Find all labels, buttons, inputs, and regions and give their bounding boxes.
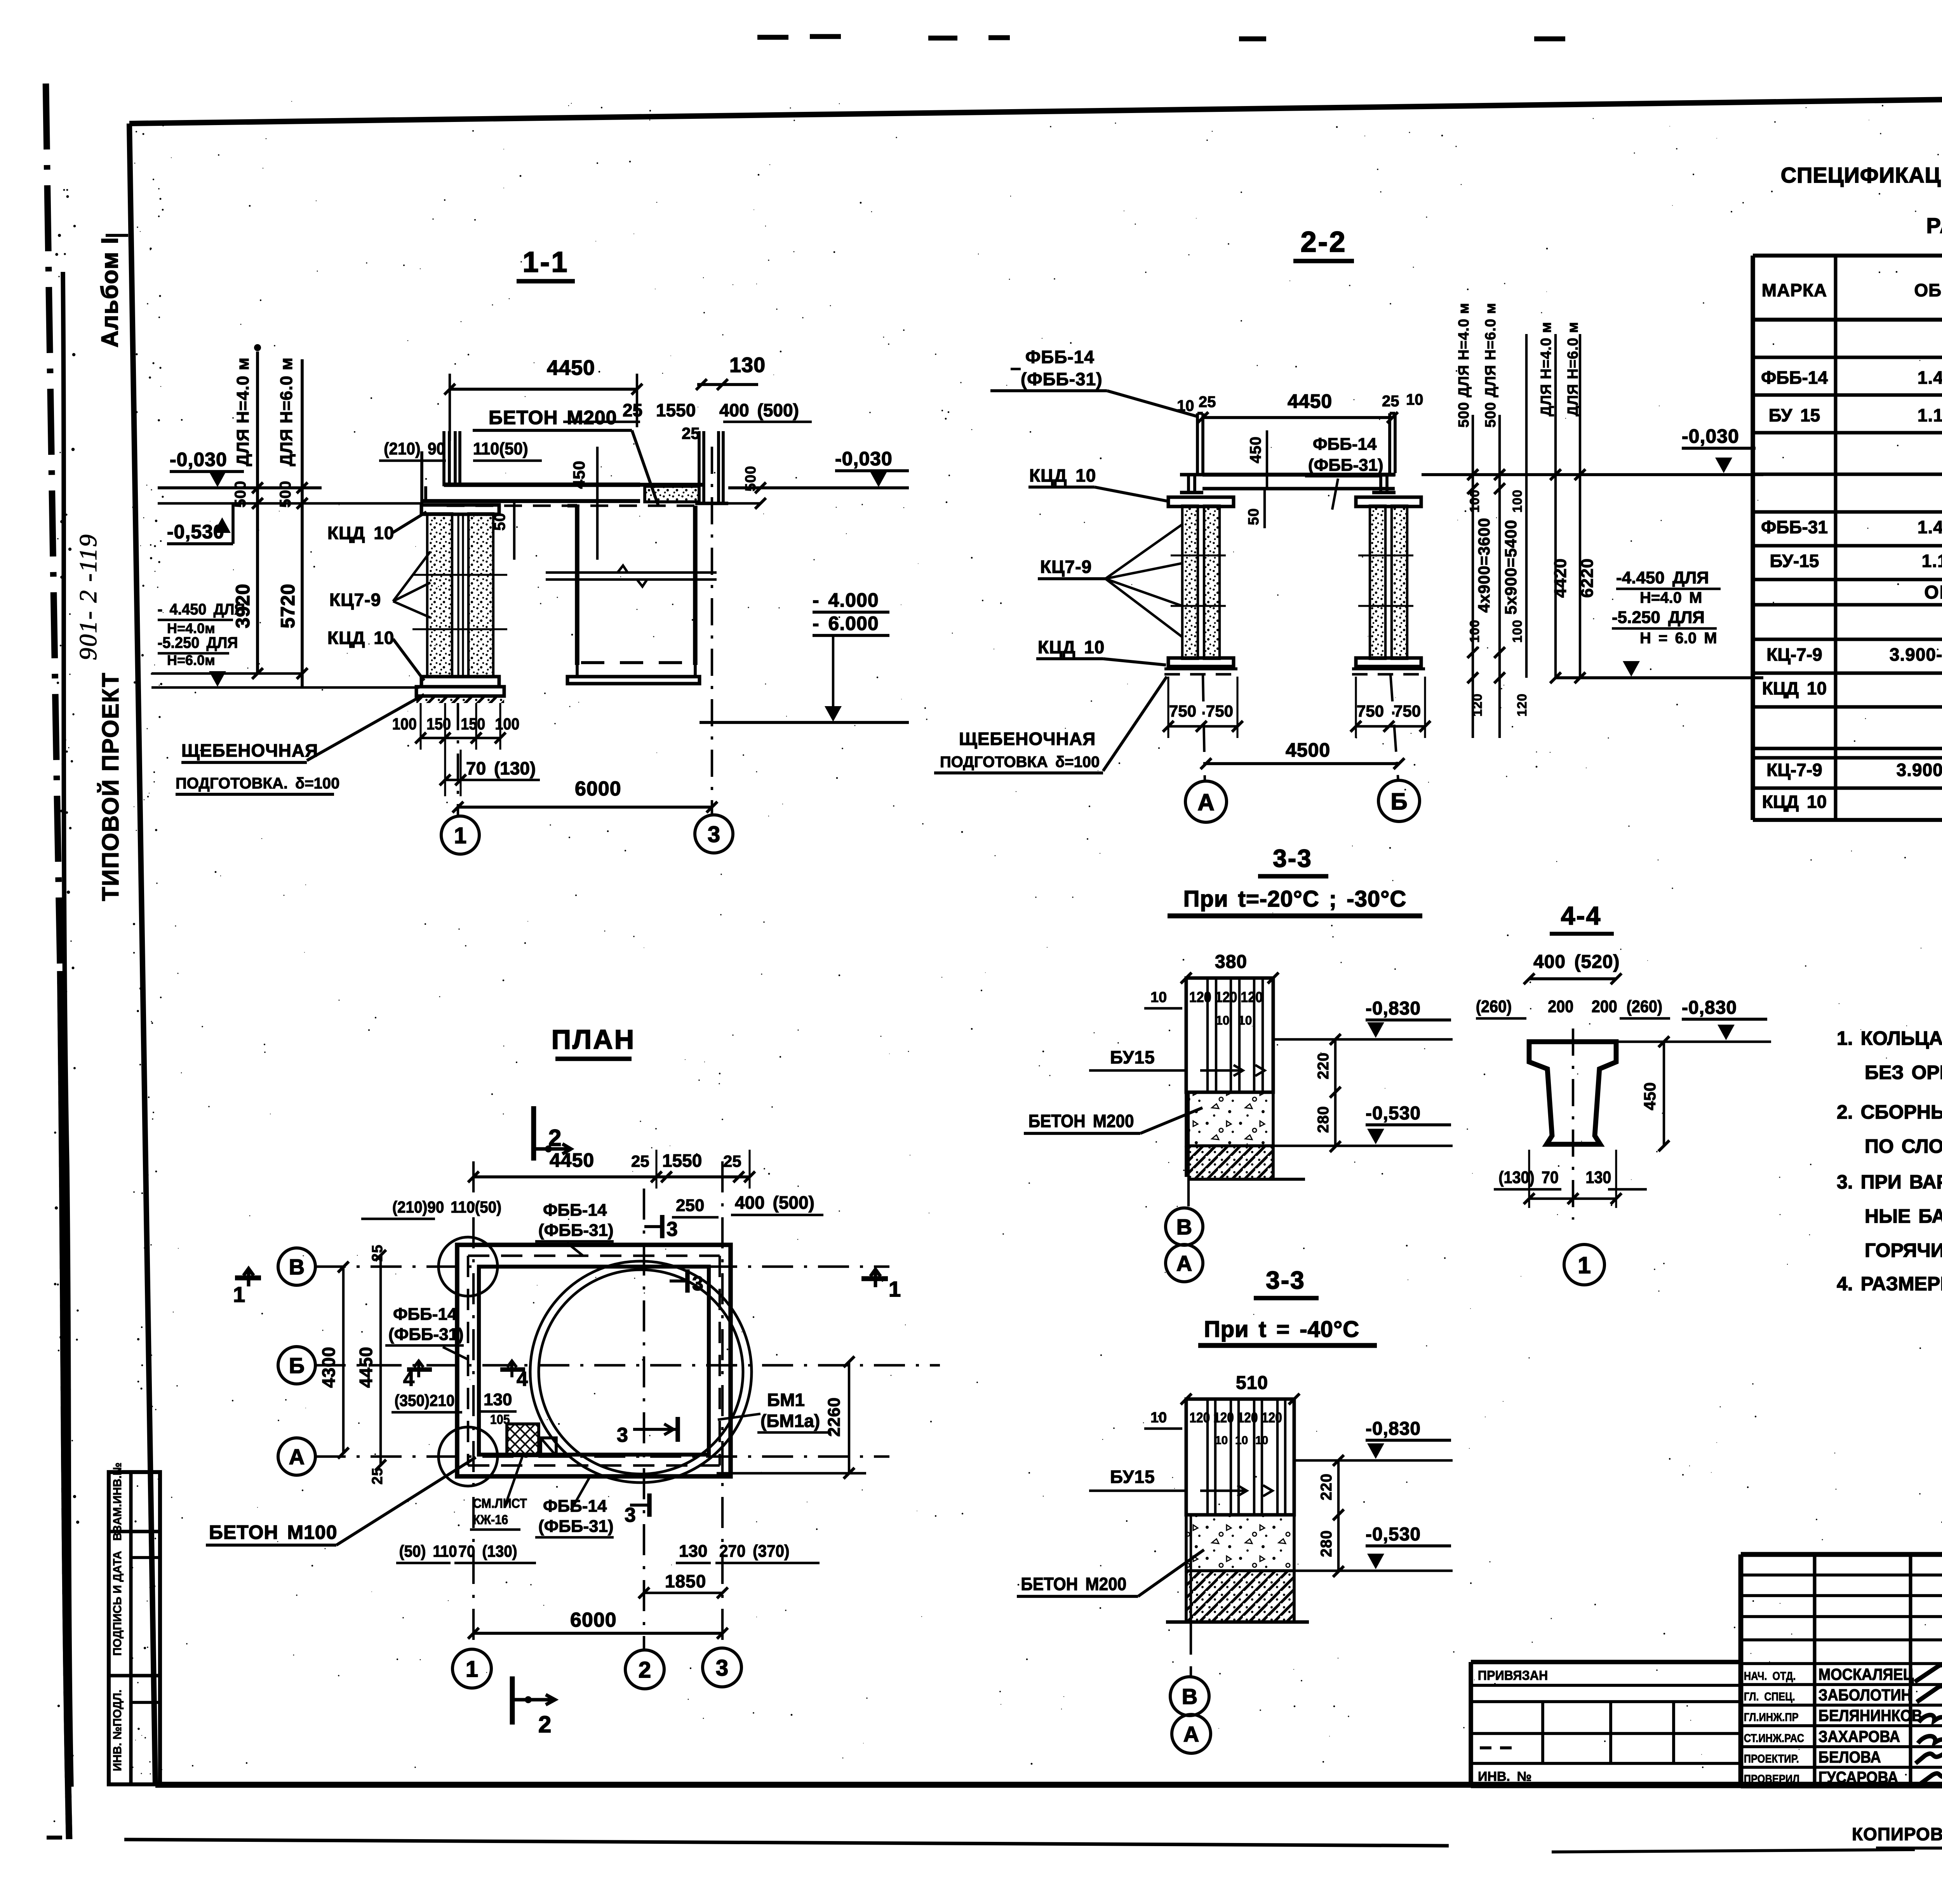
svg-text:КЖ-16: КЖ-16 — [473, 1512, 508, 1527]
svg-text:2. СБОРНЫЕ ЖЕЛЕЗОБЕТОННЫЕ ЭЛ: 2. СБОРНЫЕ ЖЕЛЕЗОБЕТОННЫЕ ЭЛЕМЕНТЫ УКЛАД… — [1837, 1101, 1942, 1123]
svg-text:ЩЕБЕНОЧНАЯ: ЩЕБЕНОЧНАЯ — [959, 729, 1096, 749]
svg-text:6220: 6220 — [1578, 558, 1597, 598]
svg-text:ФББ-14: ФББ-14 — [1025, 347, 1095, 367]
svg-text:2260: 2260 — [825, 1397, 844, 1437]
svg-text:120: 120 — [1262, 1410, 1282, 1425]
svg-text:БЕТОН М200: БЕТОН М200 — [1028, 1111, 1134, 1131]
svg-text:4х900=3600: 4х900=3600 — [1475, 518, 1493, 613]
svg-text:(210) 90: (210) 90 — [384, 439, 445, 458]
svg-text:А: А — [1176, 1251, 1192, 1276]
svg-text:ПЛАН: ПЛАН — [552, 1024, 636, 1055]
svg-text:130: 130 — [729, 353, 766, 377]
svg-text:Н=6.0м: Н=6.0м — [167, 652, 215, 668]
svg-text:220: 220 — [1318, 1473, 1335, 1500]
svg-text:ПОДГОТОВКА. δ=100: ПОДГОТОВКА. δ=100 — [176, 775, 339, 792]
svg-text:ГЛ.ИНЖ.ПР: ГЛ.ИНЖ.ПР — [1744, 1711, 1799, 1723]
svg-text:4420: 4420 — [1551, 558, 1570, 598]
svg-text:6000: 6000 — [575, 778, 621, 800]
svg-text:150: 150 — [426, 715, 451, 733]
svg-text:А: А — [1183, 1722, 1199, 1746]
svg-text:120: 120 — [1515, 693, 1530, 717]
svg-text:ФББ-14: ФББ-14 — [543, 1201, 607, 1220]
svg-text:120: 120 — [1241, 989, 1263, 1005]
svg-text:МАРКА: МАРКА — [1762, 280, 1827, 300]
svg-text:ФББ-14: ФББ-14 — [393, 1305, 457, 1324]
svg-text:3. ПРИ ВАРИАНТЕ В МОКРЫХ Г: 3. ПРИ ВАРИАНТЕ В МОКРЫХ ГРУНТАХ, ОПОРЫ … — [1837, 1171, 1942, 1193]
svg-text:БЕЗ ОРГАНИЧЕСКИХ ПРИМЕСЕЙ: БЕЗ ОРГАНИЧЕСКИХ ПРИМЕСЕЙ — [1865, 1061, 1942, 1083]
svg-text:400 (500): 400 (500) — [719, 400, 799, 420]
svg-text:200: 200 — [1548, 997, 1573, 1016]
svg-text:120: 120 — [1213, 1410, 1234, 1425]
svg-text:3-3: 3-3 — [1273, 844, 1312, 872]
svg-text:120: 120 — [1237, 1410, 1258, 1425]
svg-text:10: 10 — [1216, 1013, 1230, 1027]
svg-text:ПРИВЯЗАН: ПРИВЯЗАН — [1478, 1668, 1548, 1683]
svg-text:- 6.000: - 6.000 — [813, 613, 879, 634]
svg-text:4450: 4450 — [1288, 390, 1332, 412]
svg-text:КЦ7-9: КЦ7-9 — [1040, 557, 1092, 577]
svg-text:(50) 110: (50) 110 — [399, 1542, 457, 1560]
svg-text:450: 450 — [1247, 436, 1264, 463]
svg-text:100: 100 — [495, 715, 519, 733]
svg-text:-0,030: -0,030 — [170, 449, 227, 470]
svg-text:ФББ-14: ФББ-14 — [1313, 435, 1377, 454]
svg-text:-5.250 ДЛЯ: -5.250 ДЛЯ — [1612, 608, 1705, 627]
svg-text:5х900=5400: 5х900=5400 — [1502, 520, 1520, 615]
svg-text:КЦД 10: КЦД 10 — [327, 628, 394, 648]
svg-text:КОПИРОВАЛ:: КОПИРОВАЛ: — [1852, 1824, 1942, 1844]
svg-text:120: 120 — [1189, 1410, 1210, 1425]
svg-text:ВЗАМ.ИНВ.№: ВЗАМ.ИНВ.№ — [111, 1462, 124, 1541]
svg-text:380: 380 — [1215, 952, 1247, 972]
svg-text:4-4: 4-4 — [1561, 901, 1601, 930]
svg-text:МОСКАЛЯЕЦ: МОСКАЛЯЕЦ — [1818, 1666, 1914, 1683]
svg-text:270 (370): 270 (370) — [719, 1541, 790, 1560]
svg-text:1.415-1 Вып. 1: 1.415-1 Вып. 1 — [1918, 367, 1942, 388]
svg-text:БУ15: БУ15 — [1110, 1047, 1155, 1067]
svg-text:ПРОВЕРИЛ: ПРОВЕРИЛ — [1744, 1772, 1799, 1785]
svg-text:-0,830: -0,830 — [1366, 998, 1421, 1019]
svg-text:200: 200 — [1592, 997, 1617, 1016]
svg-text:4300: 4300 — [318, 1347, 339, 1388]
svg-text:ДЛЯ Н=4.0 м: ДЛЯ Н=4.0 м — [233, 357, 252, 466]
svg-text:ФББ-14: ФББ-14 — [543, 1497, 607, 1516]
svg-text:450: 450 — [1641, 1082, 1659, 1110]
svg-text:25: 25 — [1199, 393, 1216, 411]
svg-text:1: 1 — [889, 1277, 901, 1301]
svg-text:1: 1 — [466, 1657, 478, 1682]
svg-text:ИНВ. №: ИНВ. № — [1478, 1769, 1531, 1784]
svg-text:КЦД 10: КЦД 10 — [327, 523, 394, 543]
svg-text:2: 2 — [538, 1711, 551, 1737]
svg-text:750: 750 — [1357, 702, 1384, 720]
svg-text:3: 3 — [617, 1424, 628, 1446]
svg-text:ПОДГОТОВКА δ=100: ПОДГОТОВКА δ=100 — [940, 754, 1100, 771]
svg-text:КЦД 10: КЦД 10 — [1762, 678, 1827, 698]
svg-text:1550: 1550 — [662, 1150, 702, 1171]
svg-text:1-1: 1-1 — [523, 246, 569, 278]
svg-text:Н = 6.0 М: Н = 6.0 М — [1640, 630, 1717, 647]
svg-text:Н=4.0 М: Н=4.0 М — [1640, 589, 1702, 606]
svg-text:БЕТОН М200: БЕТОН М200 — [1021, 1574, 1126, 1594]
svg-text:100: 100 — [392, 715, 417, 733]
svg-text:-0,530: -0,530 — [1366, 1524, 1421, 1545]
svg-text:1: 1 — [233, 1282, 245, 1307]
svg-text:400 (500): 400 (500) — [735, 1192, 814, 1213]
svg-text:10: 10 — [1406, 391, 1423, 408]
svg-text:-4.450 ДЛЯ: -4.450 ДЛЯ — [1616, 568, 1709, 587]
svg-text:В: В — [1182, 1684, 1197, 1709]
svg-text:-0,530: -0,530 — [1366, 1103, 1421, 1124]
svg-text:4450: 4450 — [550, 1149, 594, 1171]
svg-text:4: 4 — [403, 1368, 414, 1391]
svg-text:3: 3 — [625, 1504, 636, 1526]
svg-text:ОПОРЫ ПОД ФУНДАМЕНТНЫЕ Б: ОПОРЫ ПОД ФУНДАМЕНТНЫЕ БАЛКИ — [1924, 582, 1942, 603]
svg-text:150: 150 — [461, 715, 485, 733]
svg-text:3: 3 — [666, 1218, 678, 1241]
svg-text:В: В — [1176, 1215, 1192, 1239]
svg-text:1: 1 — [1578, 1252, 1590, 1278]
svg-text:ЗАБОЛОТИН: ЗАБОЛОТИН — [1818, 1686, 1912, 1704]
svg-text:ДЛЯ Н=6.0 м: ДЛЯ Н=6.0 м — [1565, 322, 1581, 416]
svg-text:-0,830: -0,830 — [1682, 997, 1737, 1018]
svg-text:А: А — [289, 1445, 305, 1469]
svg-text:При t = -40°C: При t = -40°C — [1204, 1317, 1359, 1342]
svg-text:ГУСАРОВА: ГУСАРОВА — [1818, 1768, 1898, 1786]
svg-text:3: 3 — [692, 1272, 703, 1295]
svg-text:4500: 4500 — [1286, 739, 1330, 761]
svg-text:4: 4 — [517, 1368, 528, 1391]
svg-text:Б: Б — [289, 1353, 305, 1378]
svg-text:КЦ-7-9: КЦ-7-9 — [1766, 760, 1822, 780]
svg-text:50: 50 — [1246, 508, 1262, 525]
svg-text:ПРОЕКТИР.: ПРОЕКТИР. — [1744, 1752, 1799, 1765]
svg-text:250: 250 — [676, 1196, 704, 1215]
svg-text:(БМ1а): (БМ1а) — [760, 1411, 820, 1431]
svg-text:500 ДЛЯ Н=6.0 м: 500 ДЛЯ Н=6.0 м — [1483, 303, 1499, 428]
svg-text:400 (520): 400 (520) — [1533, 952, 1620, 972]
svg-text:(210)90: (210)90 — [392, 1197, 444, 1216]
svg-text:БЕЛЯНИНКОВ: БЕЛЯНИНКОВ — [1818, 1707, 1922, 1725]
svg-text:3-3: 3-3 — [1266, 1266, 1305, 1294]
svg-text:100: 100 — [1510, 489, 1525, 513]
svg-text:25: 25 — [631, 1152, 649, 1170]
svg-text:(260): (260) — [1476, 997, 1512, 1016]
svg-text:КЦД 10: КЦД 10 — [1029, 465, 1096, 486]
svg-text:ДЛЯ Н=4.0 м: ДЛЯ Н=4.0 м — [1538, 322, 1554, 416]
svg-text:750: 750 — [1169, 702, 1196, 720]
svg-text:25: 25 — [723, 1152, 741, 1170]
svg-text:70 (130): 70 (130) — [458, 1542, 517, 1560]
svg-text:ЩЕБЕНОЧНАЯ: ЩЕБЕНОЧНАЯ — [181, 740, 318, 761]
svg-text:130: 130 — [1585, 1168, 1611, 1187]
svg-text:РАСПОЛОЖЕННЫМ НА ЛИСТЕ: РАСПОЛОЖЕННЫМ НА ЛИСТЕ — [1926, 213, 1942, 238]
svg-text:Альбом I: Альбом I — [97, 237, 123, 348]
svg-text:ЗАХАРОВА: ЗАХАРОВА — [1818, 1728, 1900, 1746]
svg-text:3.900-3 Вып.7 ч. 1,2.: 3.900-3 Вып.7 ч. 1,2. — [1890, 644, 1942, 665]
svg-text:4. РАЗМЕРЫ И МАРКИ В СКОБК: 4. РАЗМЕРЫ И МАРКИ В СКОБКАХ ДЛЯ ТЕМПЕРА… — [1837, 1273, 1942, 1295]
svg-text:901- 2 -119: 901- 2 -119 — [74, 533, 102, 660]
svg-text:10: 10 — [1235, 1434, 1248, 1447]
svg-text:10: 10 — [1255, 1434, 1268, 1447]
svg-text:1. КОЛЬЦА ОПОР ЗАПОЛНЯЮТСЯ М: 1. КОЛЬЦА ОПОР ЗАПОЛНЯЮТСЯ МЕСТНЫМ ТАЛЫМ… — [1837, 1027, 1942, 1049]
svg-text:3: 3 — [716, 1655, 728, 1681]
svg-text:6000: 6000 — [570, 1609, 617, 1631]
svg-text:(ФББ-31): (ФББ-31) — [538, 1221, 614, 1240]
svg-text:-0,030: -0,030 — [1682, 425, 1739, 447]
svg-text:(ФББ-31): (ФББ-31) — [538, 1517, 614, 1536]
svg-text:130: 130 — [679, 1542, 707, 1561]
svg-text:БЕТОН М100: БЕТОН М100 — [209, 1521, 338, 1543]
svg-text:КЦ-7-9: КЦ-7-9 — [1766, 644, 1822, 665]
svg-text:ПОДПИСЬ И ДАТА: ПОДПИСЬ И ДАТА — [111, 1551, 124, 1656]
svg-text:ГЛ. СПЕЦ.: ГЛ. СПЕЦ. — [1744, 1690, 1795, 1703]
svg-text:-5.250 ДЛЯ: -5.250 ДЛЯ — [158, 634, 238, 651]
svg-text:-0,830: -0,830 — [1366, 1418, 1421, 1439]
svg-text:100: 100 — [1467, 620, 1482, 643]
svg-text:(260): (260) — [1627, 997, 1662, 1016]
svg-text:ПО СЛОЮ СВЕЖЕУЛОЖЕННОГО ЦЕМЕН: ПО СЛОЮ СВЕЖЕУЛОЖЕННОГО ЦЕМЕНТНОГО РАСТВ… — [1865, 1135, 1942, 1157]
svg-text:-0,030: -0,030 — [835, 448, 893, 470]
svg-text:110(50): 110(50) — [451, 1197, 501, 1216]
svg-text:280: 280 — [1318, 1530, 1335, 1557]
svg-text:2: 2 — [639, 1657, 651, 1683]
svg-text:ИНВ. №ПОДЛ.: ИНВ. №ПОДЛ. — [111, 1690, 124, 1771]
svg-text:ТИПОВОЙ ПРОЕКТ: ТИПОВОЙ ПРОЕКТ — [97, 672, 124, 901]
svg-text:1550: 1550 — [656, 400, 696, 420]
svg-text:10: 10 — [1238, 1013, 1252, 1027]
svg-text:НЫЕ БАЛКИ, СОПРИКАСАЮЩИЕСЯ С: НЫЕ БАЛКИ, СОПРИКАСАЮЩИЕСЯ С ГРУНТОМ, ОБ… — [1865, 1205, 1942, 1227]
svg-text:(ФББ-31): (ФББ-31) — [1021, 369, 1103, 389]
svg-text:КЦ7-9: КЦ7-9 — [329, 590, 381, 610]
svg-text:10: 10 — [1177, 397, 1194, 414]
svg-text:3: 3 — [708, 822, 720, 847]
svg-text:СПЕЦИФИКАЦИЯ ЭЛЕМЕНТОВ К МА: СПЕЦИФИКАЦИЯ ЭЛЕМЕНТОВ К МАРКИРОВОЧНЫМ С… — [1781, 163, 1942, 187]
svg-text:10: 10 — [1150, 1410, 1167, 1426]
svg-text:5720: 5720 — [277, 583, 299, 628]
svg-text:ГОРЯЧИМ БИТУМОМ ЗА 2 РАЗ: ГОРЯЧИМ БИТУМОМ ЗА 2 РАЗА — [1865, 1239, 1942, 1261]
svg-text:СМ.ЛИСТ: СМ.ЛИСТ — [473, 1496, 527, 1511]
svg-text:СТ.ИНЖ.РАС: СТ.ИНЖ.РАС — [1744, 1732, 1804, 1744]
svg-text:110(50): 110(50) — [473, 439, 528, 458]
svg-text:Б: Б — [1390, 788, 1407, 815]
svg-text:10: 10 — [1215, 1434, 1228, 1447]
svg-text:ФББ-14: ФББ-14 — [1761, 367, 1828, 388]
svg-text:БУ-15: БУ-15 — [1770, 551, 1819, 571]
svg-text:(ФББ-31): (ФББ-31) — [388, 1325, 464, 1344]
svg-text:750: 750 — [1394, 702, 1421, 720]
svg-text:1.139-1 Вып. 1: 1.139-1 Вып. 1 — [1918, 405, 1942, 425]
svg-text:БУ15: БУ15 — [1110, 1467, 1155, 1487]
svg-text:1850: 1850 — [665, 1571, 706, 1591]
svg-text:ФББ-31: ФББ-31 — [1761, 517, 1828, 537]
svg-text:БЕЛОВА: БЕЛОВА — [1818, 1748, 1881, 1766]
svg-text:ОБОЗНАЧЕНИЕ: ОБОЗНАЧЕНИЕ — [1914, 280, 1942, 300]
svg-text:500 ДЛЯ Н=4.0 м: 500 ДЛЯ Н=4.0 м — [1456, 303, 1472, 428]
svg-text:1: 1 — [454, 823, 466, 848]
svg-text:120: 120 — [1470, 693, 1485, 717]
svg-text:(ФББ-31): (ФББ-31) — [1308, 456, 1383, 475]
svg-text:25: 25 — [682, 424, 700, 442]
svg-text:- 4.450 ДЛЯ: - 4.450 ДЛЯ — [158, 601, 245, 618]
svg-text:220: 220 — [1315, 1052, 1332, 1079]
svg-text:10: 10 — [1150, 989, 1167, 1006]
svg-text:25: 25 — [1382, 393, 1399, 410]
svg-text:500: 500 — [743, 466, 759, 491]
svg-text:25: 25 — [623, 400, 642, 420]
svg-text:А: А — [1197, 789, 1214, 815]
svg-text:510: 510 — [1236, 1373, 1268, 1393]
svg-text:БМ1: БМ1 — [767, 1390, 805, 1410]
svg-text:При t=-20°C ; -30°C: При t=-20°C ; -30°C — [1183, 886, 1406, 912]
svg-text:100: 100 — [1510, 620, 1525, 643]
svg-text:БУ 15: БУ 15 — [1769, 405, 1820, 425]
svg-text:НАЧ. ОТД.: НАЧ. ОТД. — [1744, 1669, 1796, 1682]
svg-text:(350)210: (350)210 — [395, 1391, 455, 1410]
svg-text:120: 120 — [1215, 989, 1237, 1005]
svg-text:4450: 4450 — [547, 356, 595, 379]
svg-text:1.139-1 Вып.1: 1.139-1 Вып.1 — [1922, 551, 1942, 571]
svg-text:ДЛЯ Н=6.0 м: ДЛЯ Н=6.0 м — [277, 357, 296, 466]
svg-text:В: В — [289, 1255, 305, 1279]
svg-text:3.900-3 Вып.7 ч.1,2: 3.900-3 Вып.7 ч.1,2 — [1897, 760, 1942, 780]
svg-text:БЕТОН М200: БЕТОН М200 — [489, 407, 617, 428]
svg-text:280: 280 — [1315, 1106, 1332, 1133]
svg-text:2: 2 — [548, 1125, 561, 1151]
svg-text:120: 120 — [1189, 989, 1211, 1005]
svg-text:70 (130): 70 (130) — [466, 758, 536, 778]
svg-text:750: 750 — [1206, 702, 1233, 720]
svg-text:4450: 4450 — [356, 1347, 376, 1388]
svg-text:КЦД 10: КЦД 10 — [1038, 637, 1105, 657]
svg-text:- 4.000: - 4.000 — [813, 589, 879, 611]
svg-text:КЦД 10: КЦД 10 — [1762, 792, 1827, 812]
svg-text:1.415-1 Вып. 1: 1.415-1 Вып. 1 — [1918, 517, 1942, 537]
svg-text:130: 130 — [484, 1390, 512, 1409]
svg-text:Н=4.0м: Н=4.0м — [167, 620, 215, 636]
svg-text:2-2: 2-2 — [1301, 226, 1347, 258]
